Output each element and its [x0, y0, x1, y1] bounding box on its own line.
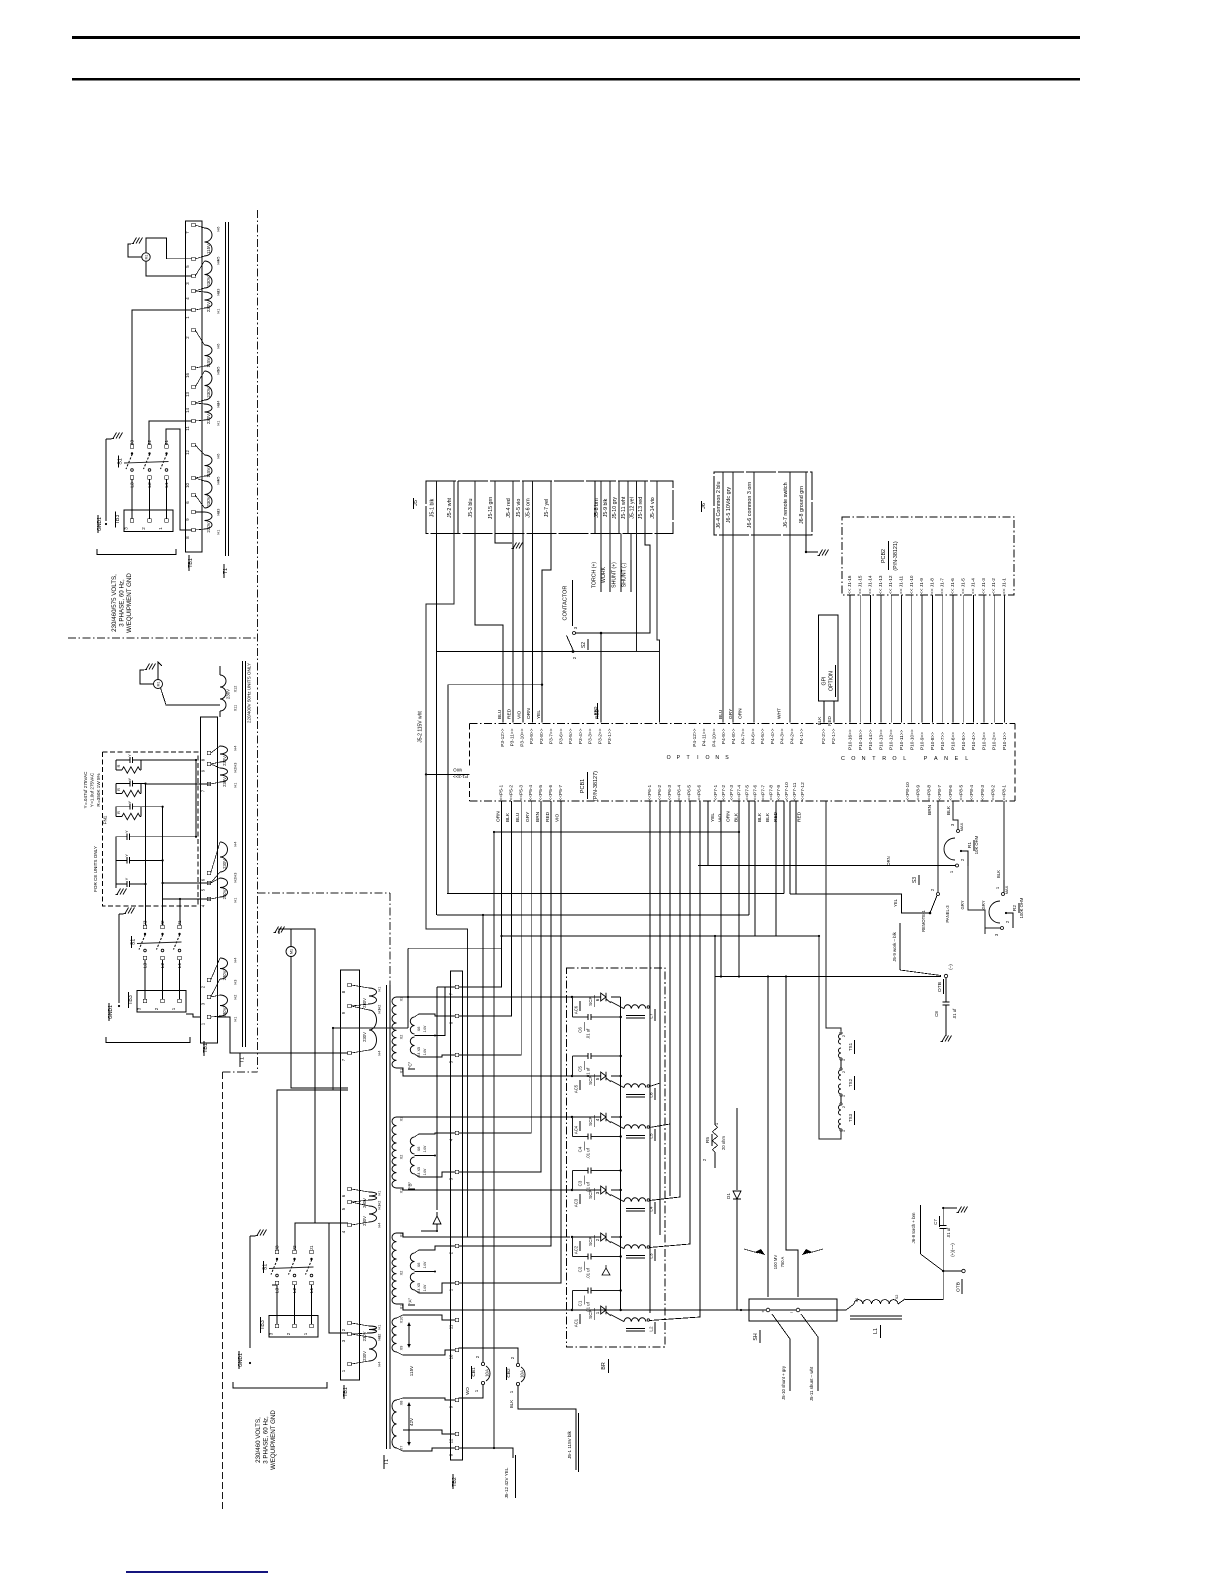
svg-text:H4: H4	[217, 260, 221, 265]
svg-text:BRN: BRN	[535, 811, 541, 822]
svg-text:10: 10	[185, 483, 190, 488]
svg-text:P10-15>>: P10-15>>	[858, 729, 863, 750]
svg-text:BLK: BLK	[505, 812, 511, 822]
svg-text:OTB: OTB	[937, 982, 943, 992]
Y capacitor 3	[116, 883, 127, 885]
svg-text:14V: 14V	[423, 1145, 427, 1152]
svg-text:<<P5-7: <<P5-7	[558, 785, 564, 801]
svg-text:ORN: ORN	[738, 708, 744, 719]
svg-text:2: 2	[595, 1238, 600, 1241]
svg-text:Y =.047uf 275VAC: Y =.047uf 275VAC	[83, 771, 88, 809]
svg-text:P10-3>>: P10-3>>	[981, 732, 986, 750]
svg-text:P3-8>>: P3-8>>	[539, 728, 545, 744]
wire tag SHUNT (-)	[630, 534, 632, 561]
svg-text:J5-11 shunt – wht: J5-11 shunt – wht	[809, 1366, 814, 1401]
gate inductor L4	[624, 1198, 646, 1202]
T1 core (50Hz unit)	[242, 661, 244, 1047]
svg-text:H6: H6	[217, 454, 221, 459]
svg-text:J6-7 remote switch: J6-7 remote switch	[783, 482, 789, 527]
svg-text:P10-9>>: P10-9>>	[920, 732, 925, 750]
SCR 4	[572, 1116, 600, 1118]
svg-text:X4 X5: X4 X5	[417, 1167, 421, 1177]
svg-text:“C”: “C”	[408, 1061, 413, 1068]
unit separator vertical (575V unit / 50Hz unit right boundary)	[257, 210, 259, 1072]
wire J5-3 blu to P3-12	[475, 534, 503, 723]
capacitor C8	[938, 975, 942, 977]
TB1 terminal 11	[192, 419, 195, 422]
svg-text:C3: C3	[578, 1180, 583, 1186]
svg-text:R: R	[116, 788, 121, 791]
TB2 terminal 1	[455, 1281, 458, 1284]
svg-text:L1: L1	[309, 1288, 315, 1294]
wire	[459, 801, 502, 987]
svg-text:3 PHASE, 60 Hz,: 3 PHASE, 60 Hz,	[119, 579, 126, 627]
svg-text:J2: J2	[160, 920, 166, 925]
T1(50Hz) winding 230V	[220, 995, 228, 1016]
svg-text:Y =1.0uf 275VAC: Y =1.0uf 275VAC	[90, 772, 95, 807]
svg-text:TS1: TS1	[848, 1042, 853, 1051]
svg-text:H3: H3	[234, 980, 238, 985]
BLK wire to R2-1	[1003, 880, 1005, 892]
svg-text:230V: 230V	[362, 1216, 367, 1226]
svg-text:RED: RED	[827, 715, 832, 725]
svg-text:10K OHM: 10K OHM	[974, 835, 979, 854]
wire	[952, 595, 954, 723]
svg-text:<<P8-5: <<P8-5	[959, 785, 965, 801]
shunt leads	[737, 1309, 749, 1311]
main T1 winding 230V	[369, 1010, 377, 1050]
wire tag TORCH (+)	[600, 534, 602, 561]
svg-text:H1: H1	[217, 421, 221, 426]
svg-text:<<P6-3: <<P6-3	[667, 785, 673, 801]
svg-text:X6: X6	[417, 1147, 421, 1152]
circuit breaker CB2 10A	[516, 1363, 519, 1366]
wire	[973, 595, 975, 723]
svg-text:J3: J3	[130, 440, 136, 445]
J5-11 shunt - wht stub	[801, 1314, 818, 1391]
wire	[459, 801, 541, 1172]
svg-text:Y: Y	[124, 854, 129, 857]
SH+ feed	[767, 977, 769, 1298]
wires S1 to TB1 terminals	[132, 310, 192, 445]
TB1 terminal 14	[192, 401, 195, 404]
terminal block TB3	[137, 991, 186, 1013]
svg-text:P3-12>>: P3-12>>	[500, 728, 506, 746]
svg-text:Y: Y	[127, 777, 132, 780]
J5 entry J5-2 wht	[453, 481, 455, 534]
svg-text:X2: X2	[400, 1035, 404, 1040]
bracket under 60Hz unit	[233, 1382, 327, 1388]
svg-text:L: L	[965, 756, 968, 762]
svg-text:BLK: BLK	[996, 870, 1001, 878]
top rule 1	[72, 36, 1080, 39]
svg-text:<<P5-5: <<P5-5	[538, 785, 544, 801]
TB1(50Hz) terminal 6	[207, 871, 210, 874]
svg-text:L1: L1	[177, 963, 183, 969]
shunt SH	[749, 1299, 837, 1321]
svg-text:BLU: BLU	[497, 709, 503, 719]
wire	[942, 595, 944, 723]
TB1 terminal 3	[192, 274, 195, 277]
GPI wires BLK RED to P2	[823, 701, 825, 723]
switch S1 tie bar	[124, 462, 169, 464]
svg-text:X10: X10	[400, 1317, 404, 1324]
svg-text:J5-10 gry: J5-10 gry	[612, 497, 618, 519]
wire y684 to YEL	[448, 684, 542, 686]
svg-text:R =350K 1W 5%: R =350K 1W 5%	[96, 773, 101, 806]
svg-text:<< J1-2: << J1-2	[991, 578, 996, 594]
gate inductor L3	[624, 1245, 646, 1249]
P7-4 wire to bus832	[738, 801, 740, 832]
svg-text:X1: X1	[855, 1298, 859, 1303]
CB1 wires	[459, 1385, 483, 1398]
svg-text:P: P	[677, 755, 681, 761]
svg-text:ORN: ORN	[495, 811, 501, 822]
svg-text:M1: M1	[145, 255, 149, 260]
switch S1 tie bar	[137, 942, 182, 944]
svg-text:20 ohm: 20 ohm	[721, 1136, 726, 1150]
svg-text:J5-10 shunt + gry: J5-10 shunt + gry	[781, 1365, 786, 1400]
svg-text:14: 14	[185, 408, 190, 413]
svg-text:<<P8-6: <<P8-6	[948, 785, 954, 801]
svg-text:FOR CE UNITS ONLY: FOR CE UNITS ONLY	[93, 846, 98, 892]
svg-text:16: 16	[185, 373, 190, 378]
J6 entry J6-6 common 3 orn	[753, 472, 755, 535]
svg-text:<< J1-16: << J1-16	[847, 575, 852, 594]
wire y948	[408, 947, 502, 949]
BR bridge dash-dot box	[567, 968, 666, 1347]
svg-text:3: 3	[595, 1191, 600, 1194]
J5 entry J5-7 yel	[550, 481, 552, 534]
main T1 winding 230V	[369, 1206, 377, 1222]
svg-text:H6: H6	[217, 344, 221, 349]
wire L1 to OTB+	[905, 1271, 943, 1300]
svg-text:<<P7-8: <<P7-8	[768, 785, 774, 801]
svg-text:J6-8 torch + brn: J6-8 torch + brn	[911, 1212, 916, 1243]
svg-text:W/EQUIPMENT GND: W/EQUIPMENT GND	[126, 573, 133, 633]
wire	[962, 595, 964, 723]
SCR 3	[572, 1189, 600, 1191]
P7-1 YEL drop	[720, 801, 722, 977]
svg-text:J5-5 vio: J5-5 vio	[516, 499, 522, 518]
svg-text:H4: H4	[234, 842, 238, 847]
svg-text:J5-15 grn: J5-15 grn	[488, 497, 494, 519]
svg-text:J5-12 42V YEL: J5-12 42V YEL	[504, 1467, 509, 1498]
svg-text:J5-1 blk: J5-1 blk	[429, 498, 435, 517]
T1(50Hz) winding 230V	[220, 878, 228, 897]
snubber capacitor C2 .01 uf	[572, 1237, 574, 1257]
svg-text:C1: C1	[578, 1300, 583, 1306]
svg-text:H4: H4	[234, 958, 238, 963]
J5 entry J5-4 red	[512, 481, 514, 534]
svg-text:10: 10	[449, 1354, 454, 1359]
svg-text:<< J1-13: << J1-13	[878, 575, 883, 594]
svg-text:CB1: CB1	[471, 1367, 477, 1377]
Y cap tie + ground	[115, 837, 117, 884]
svg-text:<<P8-9: <<P8-9	[916, 785, 922, 801]
potentiometer R1 10K OHM	[957, 830, 960, 833]
svg-text:“B”: “B”	[408, 1181, 413, 1188]
svg-text:P3-4>>: P3-4>>	[578, 728, 584, 744]
wire	[870, 595, 872, 723]
svg-text:YEL: YEL	[893, 898, 898, 907]
svg-text:TS2: TS2	[848, 1078, 853, 1087]
svg-text:P10-16>>: P10-16>>	[848, 729, 853, 750]
svg-text:Y: Y	[124, 877, 129, 880]
svg-text:X8: X8	[400, 1401, 404, 1406]
svg-text:.01 uf: .01 uf	[586, 1181, 591, 1192]
gate wire	[669, 801, 671, 1196]
T1(50Hz) winding 230V	[220, 746, 228, 762]
svg-text:C2: C2	[578, 1266, 583, 1272]
wire P8-7 BRN to S3	[937, 801, 939, 892]
J5 entry J5-11 wht	[627, 481, 629, 534]
svg-text:N: N	[715, 755, 719, 761]
svg-text:100K OHM: 100K OHM	[1019, 897, 1024, 918]
phase wire L3 vertical (CE)	[145, 784, 147, 925]
T1 primary winding 230V	[205, 404, 213, 420]
TB1 terminal 16	[192, 366, 195, 369]
SCR 1	[572, 1309, 600, 1311]
wire M1 bottom to terminal 3	[146, 261, 192, 276]
svg-text:3 PHASE, 60 Hz,: 3 PHASE, 60 Hz,	[263, 1416, 270, 1464]
J5 entry J5-13 red	[644, 481, 646, 534]
svg-text:230V: 230V	[226, 689, 231, 699]
svg-text:<< J1-15: << J1-15	[857, 575, 862, 594]
svg-text:H3: H3	[378, 1336, 382, 1341]
svg-text:14V: 14V	[423, 1261, 427, 1268]
svg-text:MAX: MAX	[1004, 885, 1009, 894]
T1 primary winding 230V	[205, 481, 213, 508]
wire	[311, 1285, 313, 1325]
ORN wire to R1-1	[698, 865, 956, 867]
svg-text:H1: H1	[234, 1017, 238, 1022]
svg-text:GRY: GRY	[960, 900, 965, 909]
separator 50Hz unit bottom / jog	[258, 892, 391, 894]
J6 entry J6-4 Common 2 blu	[722, 472, 724, 535]
main T1 secondary group B	[392, 1117, 397, 1143]
svg-text:D1: D1	[726, 1193, 731, 1199]
wire	[162, 960, 164, 1000]
svg-text:(P/N-38121): (P/N-38121)	[893, 541, 899, 571]
transformer TB1 strip (50Hz unit)	[201, 717, 218, 1043]
J6 entry J6-5 10Vdc gry	[732, 472, 734, 535]
svg-text:<<P7-11: <<P7-11	[792, 782, 798, 800]
secondary 230V winding X11 X12 (50Hz)	[220, 675, 226, 711]
svg-text:TB3: TB3	[128, 995, 134, 1005]
svg-text:14V: 14V	[423, 1048, 427, 1055]
svg-text:AC5: AC5	[574, 1084, 579, 1093]
svg-text:P10-10>>: P10-10>>	[909, 729, 914, 750]
terminal strip TB2	[451, 971, 463, 1460]
svg-text:C4: C4	[578, 1146, 583, 1152]
main T1 winding 230V	[369, 988, 377, 1004]
wire	[901, 595, 903, 723]
svg-text:L1: L1	[873, 1328, 879, 1334]
svg-text:P4-4>>: P4-4>>	[770, 728, 776, 744]
wire	[149, 479, 151, 519]
wire	[459, 801, 551, 1246]
main TB1 terminal 5	[348, 1200, 351, 1203]
svg-text:BLK: BLK	[509, 1400, 514, 1408]
phase wire L2 vertical (CE)	[162, 807, 164, 925]
TB2 terminal 4	[455, 1131, 458, 1134]
svg-text:N: N	[862, 756, 866, 762]
fan motor M1 (50Hz unit)	[154, 680, 163, 689]
wires J5-4..J5-7 to P3 pins	[512, 534, 514, 723]
svg-text:P10-8>>: P10-8>>	[930, 732, 935, 750]
ground triangle inside BR	[602, 1265, 610, 1275]
R5 feed	[714, 936, 716, 1125]
wire	[276, 1285, 278, 1325]
svg-text:<< J1-6: << J1-6	[950, 578, 955, 594]
bus y936	[502, 935, 820, 937]
svg-text:230V: 230V	[206, 496, 211, 506]
TB1(50Hz) terminal 3	[207, 995, 210, 998]
svg-text:J3: J3	[275, 1245, 281, 1250]
svg-text:BLK: BLK	[817, 716, 822, 726]
TB1 terminal 8	[192, 528, 195, 531]
svg-text:<<P5-2: <<P5-2	[508, 785, 514, 801]
svg-text:SCR: SCR	[588, 1235, 593, 1245]
fan motor M1 (575V unit)	[142, 253, 150, 261]
T1(50Hz) winding 230V	[220, 842, 228, 872]
svg-text:<<P5-3: <<P5-3	[518, 785, 524, 801]
main TB1 terminal 2	[348, 1321, 351, 1324]
capacitor C7 .01uf	[942, 1229, 944, 1272]
svg-text:.01 uf: .01 uf	[946, 1227, 951, 1238]
svg-text:O: O	[851, 756, 855, 762]
T1 primary winding 115V	[205, 228, 213, 256]
svg-text:<< J1-8: << J1-8	[929, 578, 934, 594]
svg-text:R: R	[116, 811, 121, 814]
J5 entry J5-10 gry	[618, 481, 620, 534]
svg-text:P4-1>>: P4-1>>	[799, 728, 805, 744]
svg-text:<<P6-1: <<P6-1	[647, 785, 653, 801]
svg-text:230V: 230V	[362, 998, 367, 1008]
TB2 terminal 8	[455, 1446, 458, 1449]
svg-text:<< J1-5: << J1-5	[960, 578, 965, 594]
T1 primary winding 230V	[205, 292, 213, 308]
SCR output bus	[620, 997, 622, 1310]
svg-text:<<P7-12: <<P7-12	[800, 782, 806, 801]
thermal switch TS3	[839, 1105, 842, 1115]
svg-text:X4 X5: X4 X5	[417, 1047, 421, 1057]
diode D1	[736, 1108, 738, 1190]
svg-text:230V: 230V	[206, 414, 211, 424]
svg-text:<<P8-4: <<P8-4	[969, 785, 975, 801]
svg-text:115V: 115V	[206, 357, 211, 367]
svg-text:C: C	[841, 756, 845, 762]
T1 core (575V unit)	[225, 222, 227, 556]
TB2 terminal 10	[455, 1348, 458, 1351]
svg-text:L2: L2	[649, 1326, 654, 1332]
RC snubber 2 (CE box)	[116, 783, 130, 785]
svg-text:<< J1-3: << J1-3	[981, 578, 986, 594]
svg-text:L2: L2	[292, 1288, 298, 1294]
TB1 terminal 13	[192, 385, 195, 388]
svg-text:H6: H6	[217, 227, 221, 232]
svg-text:P10-12>>: P10-12>>	[889, 729, 894, 750]
svg-text:P10-11>>: P10-11>>	[899, 729, 904, 750]
bus y915	[437, 914, 749, 916]
J5 entry J5-6 orn	[532, 481, 534, 534]
svg-text:<< J1-10: << J1-10	[909, 575, 914, 594]
svg-text:BLK: BLK	[946, 805, 952, 815]
main TB1 terminal 4	[348, 1223, 351, 1226]
svg-text:<<P7-6: <<P7-6	[753, 785, 759, 801]
svg-text:<< J1-9: << J1-9	[919, 578, 924, 594]
svg-text:X2: X2	[400, 1271, 404, 1276]
svg-text:SHUNT (+): SHUNT (+)	[612, 562, 618, 588]
svg-text:H3: H3	[234, 873, 238, 878]
svg-text:<<P8-3: <<P8-3	[980, 785, 986, 801]
wire	[921, 595, 923, 723]
main T1 winding 230V	[369, 1337, 377, 1361]
gate inductor L7	[624, 1005, 646, 1009]
thermal switch TS2	[839, 1070, 842, 1080]
svg-text:<<P7-2: <<P7-2	[721, 785, 727, 801]
wire	[1004, 595, 1006, 723]
snubber capacitor C6 .01 uf	[572, 997, 574, 1017]
svg-text:J6-4 Common 2 blu: J6-4 Common 2 blu	[716, 481, 722, 528]
svg-text:42V: 42V	[409, 1417, 414, 1426]
svg-text:L5: L5	[649, 1133, 654, 1139]
svg-text:P4-3>>: P4-3>>	[780, 728, 786, 744]
svg-text:E: E	[955, 756, 959, 762]
svg-text:H1: H1	[234, 898, 238, 903]
svg-text:P10-4>>: P10-4>>	[971, 732, 976, 750]
ground (M1 60Hz)	[274, 927, 285, 933]
main TB1 terminal 1	[348, 1362, 351, 1365]
svg-text:1: 1	[595, 1311, 600, 1314]
svg-text:.01 uf: .01 uf	[586, 1067, 591, 1078]
TB1 terminal 4	[192, 289, 195, 292]
svg-text:L2: L2	[147, 482, 153, 488]
feed to main TB1 term 7	[218, 1017, 349, 1053]
svg-text:230V: 230V	[362, 1198, 367, 1208]
svg-text:“A”: “A”	[408, 1297, 413, 1304]
wire tag SHUNT (+)	[620, 534, 622, 561]
TB1(50Hz) terminal 4	[207, 897, 210, 900]
svg-text:P: P	[924, 756, 928, 762]
TB1(50Hz) terminal 7	[207, 782, 210, 785]
svg-text:P10-1>>: P10-1>>	[1002, 732, 1007, 750]
wire	[179, 960, 181, 1000]
SCR 2	[572, 1236, 600, 1238]
svg-text:GPI: GPI	[822, 677, 828, 686]
svg-text:OPTION: OPTION	[829, 671, 835, 691]
main TB1 terminal 9	[348, 1004, 351, 1007]
svg-text:L3: L3	[143, 963, 149, 969]
svg-text:10A: 10A	[485, 1369, 490, 1377]
resistor R5 20 ohm	[714, 1108, 716, 1125]
svg-text:230V: 230V	[222, 889, 227, 899]
GPI OPTION box	[819, 615, 839, 701]
snubber capacitor C3 .01 uf	[572, 1171, 574, 1191]
svg-text:R5: R5	[705, 1137, 711, 1143]
svg-text:ORN: ORN	[886, 856, 891, 865]
svg-text:<<P8-8: <<P8-8	[926, 785, 932, 801]
left area long drops	[453, 534, 455, 605]
S2 bus wire	[437, 651, 574, 653]
svg-text:PCB1: PCB1	[580, 779, 586, 793]
svg-text:J5-1 115V blk: J5-1 115V blk	[567, 1430, 572, 1458]
svg-text:O: O	[667, 755, 671, 761]
TB1(50Hz) terminal 2	[207, 978, 210, 981]
wire K1	[436, 914, 438, 916]
svg-text:BLK: BLK	[757, 812, 763, 822]
